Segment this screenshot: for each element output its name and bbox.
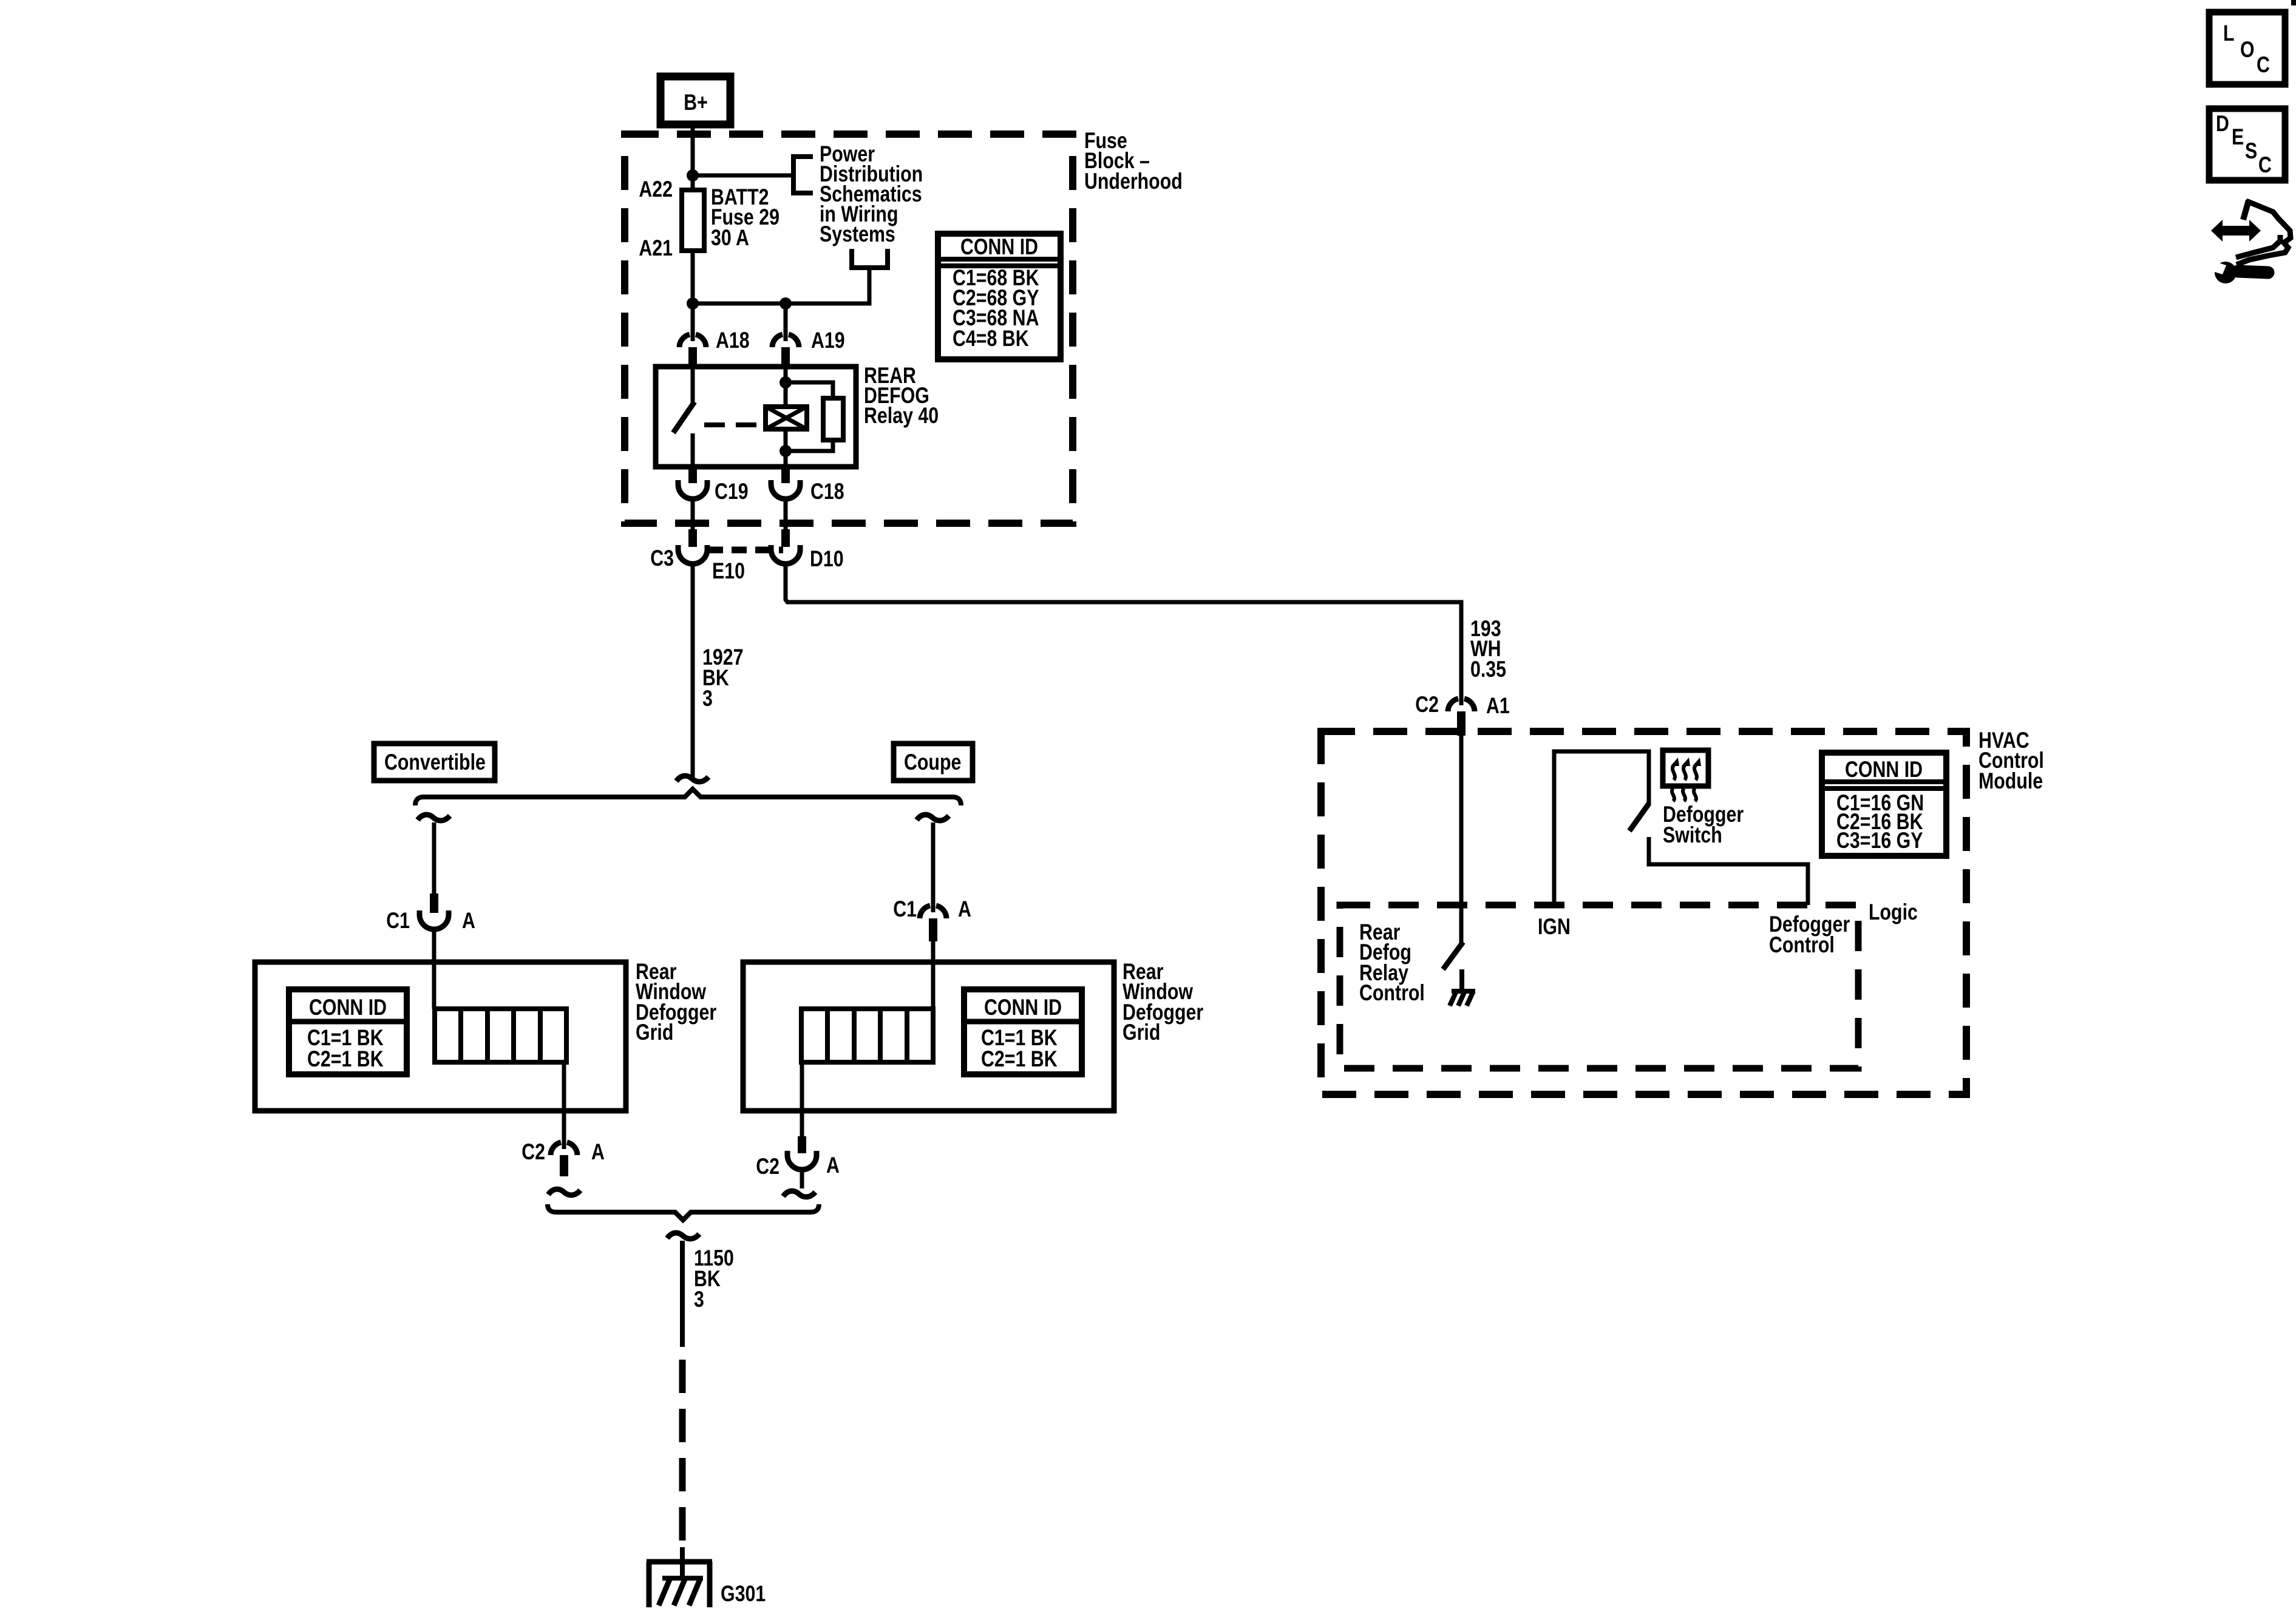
bracket under Systems label bbox=[852, 249, 888, 268]
wire parallel resistor bottom bbox=[786, 440, 833, 451]
svg-text:C2: C2 bbox=[1415, 692, 1439, 717]
pin into C3 bbox=[688, 529, 697, 547]
svg-text:3: 3 bbox=[702, 686, 713, 711]
node junction right A19 bbox=[779, 297, 792, 310]
right rear window defogger grid box bbox=[743, 962, 1114, 1111]
svg-text:C: C bbox=[2258, 152, 2272, 178]
relay switch lower wire bbox=[691, 433, 695, 467]
svg-text:0.35: 0.35 bbox=[1470, 657, 1506, 682]
break symbol below C2 left bbox=[548, 1189, 580, 1195]
connector C19 (cup) bbox=[678, 479, 749, 504]
relay switch blade bbox=[673, 402, 695, 433]
CONN ID table HVAC bbox=[1822, 753, 1946, 856]
svg-text:C1: C1 bbox=[386, 908, 410, 934]
wire IGN bbox=[1554, 751, 1649, 905]
svg-text:E: E bbox=[2232, 124, 2244, 150]
wire parallel resistor top bbox=[786, 382, 833, 398]
wire C3 down (1927 BK 3) bbox=[691, 564, 695, 779]
CONN ID table right grid bbox=[964, 989, 1082, 1074]
power symbol B+ bbox=[661, 76, 730, 124]
break symbol below merge brace bbox=[667, 1233, 699, 1239]
svg-text:A21: A21 bbox=[639, 236, 673, 261]
svg-text:A: A bbox=[591, 1139, 605, 1165]
wire down dashed part bbox=[679, 1360, 686, 1554]
svg-text:O: O bbox=[2240, 37, 2255, 63]
wire label 1150 BK 3 bbox=[694, 1246, 734, 1312]
svg-text:3: 3 bbox=[694, 1287, 704, 1312]
svg-text:C2=1 BK: C2=1 BK bbox=[981, 1046, 1058, 1072]
svg-text:A: A bbox=[826, 1153, 840, 1178]
logic dashed box bbox=[1340, 905, 1858, 1068]
svg-text:A1: A1 bbox=[1486, 693, 1510, 719]
wire C1 into left grid box bbox=[432, 929, 436, 1009]
DESC icon box bbox=[2209, 109, 2285, 180]
svg-text:C3=16 GY: C3=16 GY bbox=[1836, 828, 1923, 853]
svg-text:CONN ID: CONN ID bbox=[1845, 757, 1923, 782]
svg-text:CONN ID: CONN ID bbox=[309, 995, 387, 1020]
wire coupe branch bbox=[931, 822, 936, 912]
wire coil to lower junction bbox=[784, 429, 788, 467]
wire label 193 WH 0.35 bbox=[1470, 616, 1506, 682]
svg-text:D: D bbox=[2216, 111, 2229, 137]
svg-text:L: L bbox=[2223, 21, 2235, 46]
defogger grid element right bbox=[801, 1009, 933, 1062]
label Defogger Control bbox=[1769, 912, 1850, 958]
label Defogger Switch bbox=[1663, 802, 1744, 848]
relay control switch blade bbox=[1443, 942, 1463, 969]
pin into C1 convertible bbox=[430, 893, 438, 913]
break symbol below C2 right bbox=[783, 1191, 815, 1197]
svg-text:E10: E10 bbox=[712, 558, 745, 584]
svg-text:Grid: Grid bbox=[1123, 1020, 1160, 1045]
wire C18 to D10 bbox=[784, 499, 788, 531]
svg-text:30 A: 30 A bbox=[711, 225, 749, 251]
LOC icon box bbox=[2209, 12, 2285, 84]
wire left grid to C2 bbox=[562, 1062, 566, 1149]
svg-text:D10: D10 bbox=[810, 546, 844, 572]
svg-text:CONN ID: CONN ID bbox=[960, 234, 1038, 260]
value label BATT2 Fuse 29 30 A bbox=[711, 185, 779, 251]
label Rear Defog Relay Control bbox=[1359, 920, 1425, 1006]
defogger heat indicator icon bbox=[1663, 750, 1708, 801]
label HVAC Control Module bbox=[1978, 728, 2044, 794]
connector C1 coupe (dome) bbox=[893, 897, 971, 941]
defogger switch lower wire bbox=[1649, 837, 1808, 905]
connector C1 convertible (cup) bbox=[386, 908, 475, 934]
wire below C2 right bbox=[800, 1170, 804, 1188]
wire junction to A19 connector bbox=[784, 303, 788, 341]
connector C3 (cup) bbox=[650, 545, 707, 571]
wire right grid to C2 bbox=[800, 1062, 804, 1136]
wire fuse down to junction row bbox=[691, 251, 695, 303]
svg-text:Logic: Logic bbox=[1869, 900, 1918, 925]
wire C1 coupe into right grid box bbox=[931, 941, 936, 1009]
wire down (1150 BK 3) solid part bbox=[680, 1241, 685, 1347]
power distribution bracket bbox=[793, 157, 813, 193]
defogger grid element left bbox=[435, 1009, 566, 1062]
wire D10 to HVAC (193 WH) bbox=[786, 564, 1461, 705]
node coil bottom junction bbox=[779, 445, 792, 457]
dashed connector link E10 bbox=[708, 550, 783, 584]
wire junction to power distribution bracket bbox=[693, 174, 793, 178]
svg-text:Underhood: Underhood bbox=[1084, 169, 1183, 194]
fuse BATT2 Fuse 29 30 A bbox=[682, 190, 704, 251]
svg-text:C18: C18 bbox=[810, 479, 844, 504]
svg-text:Grid: Grid bbox=[636, 1020, 673, 1045]
connector C2 right (cup) bbox=[756, 1151, 840, 1179]
svg-text:Module: Module bbox=[1978, 768, 2043, 794]
svg-text:C1: C1 bbox=[893, 897, 917, 922]
svg-text:A: A bbox=[462, 908, 475, 934]
svg-text:Switch: Switch bbox=[1663, 822, 1722, 848]
svg-text:A19: A19 bbox=[811, 328, 845, 353]
CONN ID table left grid bbox=[289, 989, 407, 1074]
merge brace to ground wire bbox=[548, 1204, 819, 1220]
wire bracket to junction row bbox=[693, 268, 869, 303]
svg-text:S: S bbox=[2245, 138, 2257, 164]
label Fuse Block - Underhood bbox=[1084, 128, 1183, 194]
svg-text:Convertible: Convertible bbox=[384, 750, 486, 775]
svg-text:C4=8 BK: C4=8 BK bbox=[953, 326, 1029, 351]
svg-text:Relay 40: Relay 40 bbox=[864, 403, 939, 429]
wire C2 A1 down to relay control switch bbox=[1459, 736, 1464, 943]
page corner tick bbox=[2291, 0, 2296, 5]
svg-text:B+: B+ bbox=[684, 90, 708, 115]
svg-text:C19: C19 bbox=[715, 479, 749, 504]
relay REAR DEFOG Relay 40 box bbox=[656, 367, 856, 467]
label Rear Window Defogger Grid left bbox=[636, 959, 716, 1045]
resistor in relay bbox=[823, 398, 843, 440]
wire junction to A18 connector bbox=[691, 303, 695, 341]
svg-text:C2: C2 bbox=[521, 1139, 545, 1165]
relay coil box with X bbox=[766, 407, 807, 429]
svg-text:A22: A22 bbox=[639, 177, 673, 202]
defogger switch blade bbox=[1629, 804, 1649, 831]
left rear window defogger grid box bbox=[255, 962, 626, 1111]
label REAR DEFOG Relay 40 bbox=[864, 363, 939, 429]
connector A19 (dome) bbox=[772, 328, 845, 367]
HVAC control module dashed box bbox=[1321, 731, 1966, 1094]
svg-text:C2: C2 bbox=[756, 1154, 779, 1179]
pin into D10 bbox=[781, 529, 790, 547]
wire C19 to C3 bbox=[691, 499, 695, 531]
break symbol convertible branch bbox=[418, 815, 450, 821]
svg-text:Systems: Systems bbox=[820, 222, 895, 247]
connector A18 (dome) bbox=[679, 328, 750, 367]
svg-text:Control: Control bbox=[1359, 980, 1425, 1006]
svg-text:G301: G301 bbox=[721, 1581, 766, 1607]
relay actuation dashed link bbox=[704, 422, 764, 427]
svg-text:C2=1 BK: C2=1 BK bbox=[307, 1046, 384, 1072]
wire convertible branch bbox=[432, 822, 436, 893]
label Rear Window Defogger Grid right bbox=[1123, 959, 1203, 1045]
svg-text:Coupe: Coupe bbox=[904, 750, 961, 775]
svg-text:Control: Control bbox=[1769, 932, 1835, 958]
connector repair icon (arrow, outline, wrench) bbox=[2209, 200, 2291, 283]
wire label 1927 BK 3 bbox=[702, 645, 743, 711]
CONN ID table fuse block bbox=[938, 234, 1061, 359]
connector D10 (cup) bbox=[771, 545, 844, 572]
option label box Coupe bbox=[894, 744, 973, 781]
relay control switch lower stub bbox=[1459, 969, 1464, 990]
option split brace bbox=[415, 789, 961, 805]
ground symbol G301 bbox=[647, 1547, 766, 1607]
svg-text:C: C bbox=[2257, 52, 2270, 78]
connector C2 left (dome) bbox=[521, 1139, 605, 1176]
svg-text:A: A bbox=[958, 897, 971, 922]
fuse block underhood dashed box bbox=[625, 134, 1073, 523]
svg-text:IGN: IGN bbox=[1538, 914, 1571, 940]
connector C18 (cup) bbox=[771, 479, 844, 504]
relay switch contact wire bbox=[691, 367, 695, 403]
option label box Convertible bbox=[374, 744, 495, 781]
node coil top junction bbox=[779, 376, 792, 388]
svg-text:A18: A18 bbox=[716, 328, 750, 353]
label Power Distribution Schematics in Wiring Systems bbox=[820, 141, 923, 247]
break symbol coupe branch bbox=[917, 815, 949, 821]
logic ground symbol bbox=[1450, 991, 1475, 1006]
pin relay to C18 bbox=[781, 467, 790, 483]
break symbol above option brace bbox=[676, 776, 708, 782]
node junction above fuse bbox=[687, 169, 699, 181]
wire A19 into coil bbox=[784, 367, 788, 407]
connector C2 A1 (dome) bbox=[1415, 692, 1510, 736]
pin into C2 right bbox=[798, 1136, 806, 1153]
pin relay to C19 bbox=[688, 467, 697, 483]
wire B+ to fuse bbox=[691, 124, 695, 190]
svg-text:CONN ID: CONN ID bbox=[984, 995, 1062, 1020]
svg-text:C3: C3 bbox=[650, 546, 674, 571]
node junction left A18 bbox=[687, 297, 699, 310]
